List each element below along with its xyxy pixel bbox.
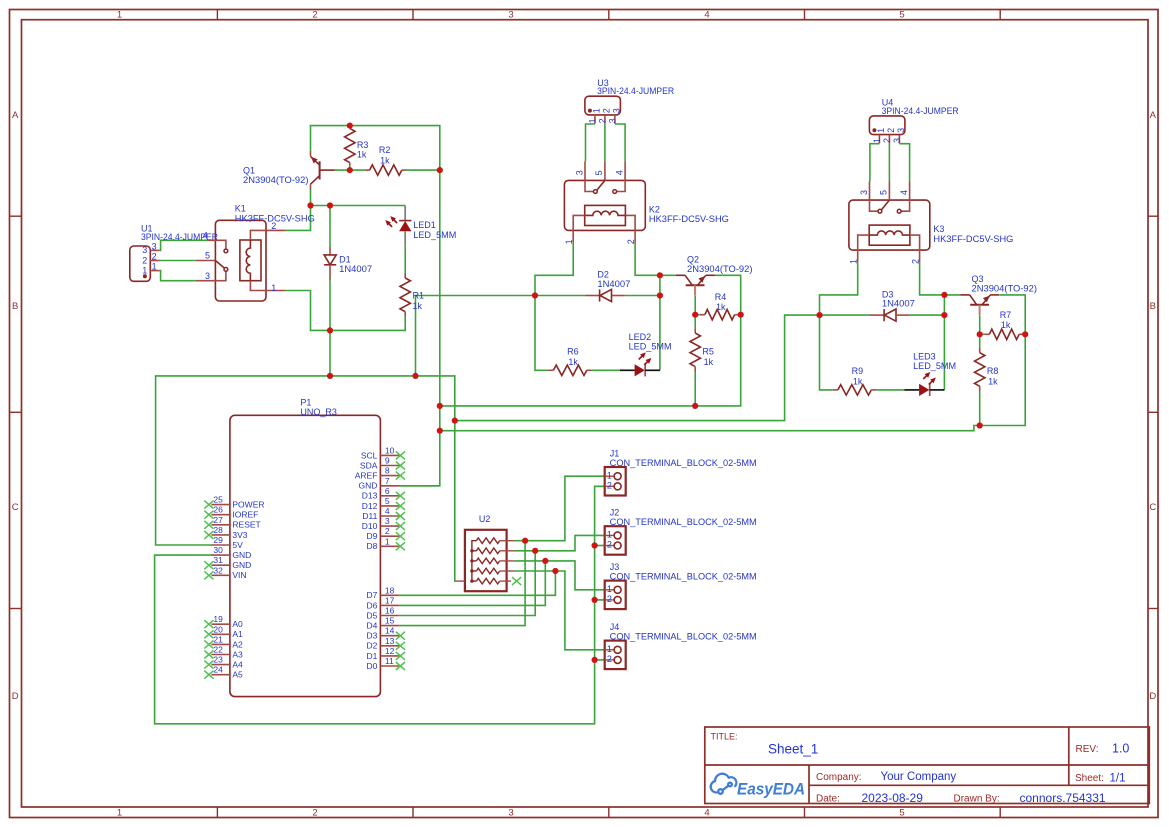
svg-text:B: B	[1150, 301, 1156, 312]
svg-text:2N3904(TO-92): 2N3904(TO-92)	[243, 175, 309, 185]
wire K3 pin1 to D3 anode node	[820, 262, 858, 315]
relay K1 HK3FF-DC5V-SHG	[196, 204, 315, 301]
wire U2 pin1 to J1 pin1	[515, 476, 605, 541]
svg-text:D1: D1	[367, 651, 378, 661]
svg-text:23: 23	[213, 655, 223, 665]
wire J4 pin2 stub	[595, 659, 605, 661]
P1 pin 31 GND	[204, 555, 251, 570]
diode D2 1N4007	[586, 270, 631, 302]
svg-text:4: 4	[385, 506, 390, 516]
svg-text:5: 5	[879, 190, 889, 195]
svg-text:B: B	[12, 301, 18, 312]
P1 pin 22 A3	[204, 645, 243, 660]
svg-text:Sheet:: Sheet:	[1075, 773, 1104, 784]
svg-text:1k: 1k	[357, 150, 367, 160]
svg-text:2N3904(TO-92): 2N3904(TO-92)	[972, 284, 1038, 294]
svg-text:1: 1	[152, 262, 157, 272]
svg-text:26: 26	[213, 505, 223, 515]
wire R5 top stub	[694, 315, 696, 329]
wire U1 pin3 to K1 pin4	[160, 240, 208, 250]
svg-text:Q1: Q1	[243, 165, 255, 175]
P1 pin 25 POWER	[204, 495, 264, 510]
wire D3 cathode to LED3 column	[909, 314, 944, 316]
svg-text:D9: D9	[367, 531, 378, 541]
P1 pin 18 D7	[367, 585, 399, 600]
resistor R5 1k	[690, 328, 714, 371]
svg-text:30: 30	[213, 545, 223, 555]
svg-text:A0: A0	[232, 619, 243, 629]
wire D1 rail to 5V rail	[329, 330, 331, 376]
svg-text:1: 1	[588, 118, 598, 123]
svg-text:3: 3	[574, 170, 584, 175]
IC P1 UNO_R3	[230, 398, 381, 697]
svg-text:R8: R8	[987, 366, 999, 376]
P1 pin 1 D8	[367, 536, 405, 551]
resistor network U2	[456, 514, 521, 591]
svg-text:3: 3	[508, 10, 513, 21]
svg-text:1: 1	[849, 259, 859, 264]
svg-text:25: 25	[213, 495, 223, 505]
junction D1 bottom rail	[327, 327, 333, 333]
svg-text:SCL: SCL	[361, 450, 378, 460]
svg-text:24: 24	[213, 665, 223, 675]
svg-text:UNO_R3: UNO_R3	[300, 407, 337, 417]
svg-text:1: 1	[564, 239, 574, 244]
junction R5 bottom / rail	[692, 403, 698, 409]
wire R4 left stub	[695, 314, 700, 316]
svg-text:1k: 1k	[1001, 320, 1011, 330]
transistor Q1 2N3904(TO-92)	[243, 151, 335, 190]
relay K3 HK3FF-DC5V-SHG	[849, 181, 1014, 264]
svg-text:3: 3	[612, 108, 622, 113]
wire R2 right to GND rail	[406, 169, 440, 171]
P1 pin 20 A1	[204, 624, 243, 639]
svg-text:2: 2	[607, 594, 612, 604]
svg-text:D12: D12	[362, 501, 378, 511]
P1 pin 14 D3	[367, 626, 405, 641]
wire 5V branch to D3 anode	[455, 315, 870, 421]
svg-text:17: 17	[385, 595, 395, 605]
svg-text:5: 5	[594, 170, 604, 175]
jumper U1 3PIN-24.4-JUMPER	[130, 224, 219, 282]
wire K3 pin2 to Q3 base	[920, 262, 961, 295]
svg-text:2: 2	[607, 481, 612, 491]
svg-text:A3: A3	[232, 649, 243, 659]
P1 pin 15 D4	[367, 616, 399, 631]
svg-text:IOREF: IOREF	[232, 510, 258, 520]
connector J1 CON_TERMINAL_BLOCK_02-5MM	[605, 449, 757, 496]
svg-text:D0: D0	[367, 661, 378, 671]
svg-text:1: 1	[117, 808, 122, 819]
connector J2 CON_TERMINAL_BLOCK_02-5MM	[605, 508, 757, 555]
junction GND rail branch y431	[437, 428, 443, 434]
svg-text:10: 10	[385, 445, 395, 455]
P1 pin 7 GND	[359, 476, 399, 491]
svg-text:2: 2	[312, 808, 317, 819]
svg-text:2: 2	[882, 138, 892, 143]
wire R9 to LED3	[876, 389, 904, 391]
wire LED1 to R1	[404, 245, 406, 273]
svg-text:connors.754331: connors.754331	[1020, 791, 1106, 805]
transistor Q2 2N3904(TO-92)	[676, 254, 753, 295]
P1 pin 6 D13	[362, 486, 405, 501]
junction Q1 base / R3 / R2	[347, 167, 353, 173]
svg-text:REV:: REV:	[1076, 744, 1099, 755]
svg-text:Q3: Q3	[972, 274, 984, 284]
svg-text:7: 7	[385, 476, 390, 486]
wire Q1 base to R2 left	[335, 169, 365, 171]
wire J2 pin2 stub	[595, 545, 605, 547]
svg-text:HK3FF-DC5V-SHG: HK3FF-DC5V-SHG	[933, 234, 1013, 244]
wire R7 left stub	[980, 333, 985, 335]
P1 pin 28 3V3	[204, 525, 247, 540]
wire D1 bottom to rail	[329, 280, 331, 330]
junction R3 top / top rail	[347, 123, 353, 129]
wire U3 pin2 to K2 pin5	[604, 124, 606, 162]
svg-text:2: 2	[385, 526, 390, 536]
svg-text:13: 13	[385, 636, 395, 646]
svg-text:2: 2	[911, 259, 921, 264]
svg-text:1.0: 1.0	[1112, 742, 1129, 756]
svg-text:VIN: VIN	[232, 570, 246, 580]
P1 pin 30 GND	[211, 545, 251, 560]
junction K2 pin2 / Q2 base / LED2 column	[657, 272, 663, 278]
junction K2 pin1 / D2 anode / R6	[532, 292, 538, 298]
svg-text:EasyEDA: EasyEDA	[737, 781, 805, 799]
svg-text:31: 31	[213, 555, 223, 565]
svg-text:9: 9	[385, 456, 390, 466]
svg-text:2: 2	[886, 128, 896, 133]
svg-text:19: 19	[213, 614, 223, 624]
wire R4 right stub	[740, 314, 741, 316]
junction Q3 collector / R7 / R8	[977, 331, 983, 337]
transistor Q3 2N3904(TO-92)	[960, 274, 1037, 315]
svg-text:6: 6	[385, 486, 390, 496]
svg-text:C: C	[1149, 502, 1156, 513]
junction U2 pin4 / D7 branch	[552, 568, 558, 574]
junction R8 bottom / rail	[977, 422, 983, 428]
wire 5V net from P1 pin29 up and across to U2 common	[156, 376, 456, 581]
svg-text:1: 1	[271, 283, 276, 293]
resistor R7 1k	[984, 310, 1024, 339]
svg-text:CON_TERMINAL_BLOCK_02-5MM: CON_TERMINAL_BLOCK_02-5MM	[610, 517, 757, 527]
svg-text:POWER: POWER	[232, 500, 264, 510]
svg-text:GND: GND	[359, 481, 378, 491]
junction 5V rail / D2 branch	[412, 373, 418, 379]
svg-text:Sheet_1: Sheet_1	[768, 742, 818, 757]
junction R7 right / emitter rail	[1022, 331, 1028, 337]
wire D2 cathode to LED2 column	[625, 295, 660, 297]
svg-text:C: C	[12, 502, 19, 513]
svg-text:R2: R2	[379, 145, 391, 155]
svg-text:18: 18	[385, 585, 395, 595]
wire LED2 column	[659, 275, 661, 370]
svg-text:D8: D8	[367, 541, 378, 551]
wire Q1 collector down to node	[310, 190, 312, 206]
svg-text:LED_5MM: LED_5MM	[629, 342, 672, 352]
svg-text:4: 4	[704, 808, 709, 819]
wire U2 pin2 to J2 pin1	[515, 535, 605, 550]
svg-text:Q2: Q2	[687, 254, 699, 264]
wire rail to R8 bottom and up to Q3 emitter	[440, 295, 1025, 431]
svg-text:1N4007: 1N4007	[882, 299, 915, 309]
svg-text:CON_TERMINAL_BLOCK_02-5MM: CON_TERMINAL_BLOCK_02-5MM	[610, 458, 757, 468]
diode D1 1N4007	[324, 247, 372, 280]
junction J4 pin2 / GND column	[592, 657, 598, 663]
svg-text:D13: D13	[362, 491, 378, 501]
svg-text:GND: GND	[232, 560, 251, 570]
connector J4 CON_TERMINAL_BLOCK_02-5MM	[605, 622, 757, 669]
junction U2 pin2 / D5 branch	[532, 548, 538, 554]
svg-text:1k: 1k	[853, 377, 863, 387]
svg-text:LED2: LED2	[629, 332, 652, 342]
junction GND rail branch y406	[437, 403, 443, 409]
svg-text:1: 1	[385, 536, 390, 546]
svg-text:32: 32	[213, 565, 223, 575]
svg-text:4: 4	[899, 190, 909, 195]
svg-text:1k: 1k	[704, 357, 714, 367]
svg-text:2: 2	[142, 255, 147, 265]
svg-text:LED1: LED1	[413, 220, 436, 230]
wire Q3 collector node	[979, 316, 981, 335]
P1 pin 23 A4	[204, 655, 243, 670]
svg-text:K3: K3	[933, 224, 944, 234]
svg-text:A2: A2	[232, 639, 243, 649]
svg-text:K2: K2	[649, 204, 660, 214]
P1 pin 2 D9	[367, 526, 405, 541]
svg-text:D11: D11	[362, 511, 377, 521]
P1 pin 3 D10	[362, 516, 405, 531]
junction R4 right / emitter rail	[738, 312, 744, 318]
svg-text:R7: R7	[1000, 310, 1012, 320]
svg-text:28: 28	[213, 525, 223, 535]
svg-text:1k: 1k	[568, 357, 578, 367]
P1 pin 26 IOREF	[204, 505, 258, 520]
P1 pin 4 D11	[362, 506, 405, 521]
svg-text:4: 4	[704, 10, 709, 21]
svg-text:A4: A4	[232, 660, 243, 670]
svg-text:2: 2	[626, 239, 636, 244]
wire U2 pin4 to J4 pin1	[515, 571, 605, 650]
svg-text:K1: K1	[235, 204, 246, 214]
resistor R2 1k	[365, 145, 406, 175]
svg-text:3PIN-24.4-JUMPER: 3PIN-24.4-JUMPER	[597, 86, 674, 96]
resistor R3 1k	[345, 126, 369, 166]
svg-text:29: 29	[213, 535, 223, 545]
svg-text:1: 1	[607, 644, 612, 654]
junction R2 right / GND rail	[437, 167, 443, 173]
P1 pin 8 AREF	[355, 466, 405, 481]
wire K2 pin2 to Q2 base	[635, 243, 676, 276]
svg-text:3: 3	[152, 241, 157, 251]
svg-text:D7: D7	[367, 590, 378, 600]
svg-text:LED_5MM: LED_5MM	[913, 361, 956, 371]
svg-text:5: 5	[899, 10, 904, 21]
junction J2 pin2 / GND column	[592, 542, 598, 548]
junction J3 pin2 / GND column	[592, 597, 598, 603]
svg-text:1: 1	[876, 128, 886, 133]
P1 pin 21 A2	[204, 634, 243, 649]
connector J3 CON_TERMINAL_BLOCK_02-5MM	[605, 562, 757, 609]
svg-text:A1: A1	[232, 629, 243, 639]
P1 pin 9 SDA	[360, 456, 405, 471]
svg-text:8: 8	[385, 466, 390, 476]
diode D3 1N4007	[870, 289, 915, 321]
svg-text:2: 2	[152, 251, 157, 261]
svg-text:AREF: AREF	[355, 471, 378, 481]
P1 pin 24 A5	[204, 665, 243, 680]
svg-text:D6: D6	[367, 600, 378, 610]
svg-text:3V3: 3V3	[232, 530, 247, 540]
junction 5V rail / K3 branch	[452, 418, 458, 424]
svg-text:R6: R6	[567, 347, 579, 357]
svg-text:LED3: LED3	[913, 352, 936, 362]
svg-text:4: 4	[614, 170, 624, 175]
svg-text:1k: 1k	[988, 377, 998, 387]
resistor R9 1k	[833, 366, 876, 395]
svg-text:3: 3	[385, 516, 390, 526]
LED LED2 LED_5MM	[620, 332, 672, 377]
svg-text:2: 2	[602, 108, 612, 113]
wire R9 branch down	[820, 315, 833, 390]
svg-text:5: 5	[385, 496, 390, 506]
resistor R6 1k	[548, 347, 591, 376]
svg-text:1k: 1k	[716, 302, 726, 312]
P1 pin 17 D6	[367, 595, 399, 610]
P1 pin 32 VIN	[204, 565, 246, 580]
svg-text:3PIN-24.4-JUMPER: 3PIN-24.4-JUMPER	[882, 106, 959, 116]
svg-text:A: A	[1150, 110, 1157, 121]
svg-text:R4: R4	[715, 292, 727, 302]
svg-text:TITLE:: TITLE:	[711, 732, 738, 742]
svg-text:R1: R1	[413, 291, 425, 301]
relay K2 HK3FF-DC5V-SHG	[564, 161, 729, 244]
svg-text:D4: D4	[367, 621, 378, 631]
svg-text:1: 1	[872, 138, 882, 143]
svg-text:R5: R5	[702, 347, 714, 357]
svg-text:21: 21	[213, 634, 223, 644]
svg-text:2: 2	[271, 221, 276, 231]
junction U2 pin1 / D4 branch	[522, 538, 528, 544]
svg-text:CON_TERMINAL_BLOCK_02-5MM: CON_TERMINAL_BLOCK_02-5MM	[610, 631, 757, 641]
wire U2 pin1 to P1 D4	[399, 541, 525, 626]
svg-text:2N3904(TO-92): 2N3904(TO-92)	[687, 264, 753, 274]
wire U2 pin3 to P1 D6	[399, 561, 545, 606]
P1 pin 5 D12	[362, 496, 405, 511]
svg-text:16: 16	[385, 606, 395, 616]
svg-text:1/1: 1/1	[1110, 773, 1126, 785]
svg-text:Company:: Company:	[816, 772, 862, 783]
svg-text:1N4007: 1N4007	[339, 264, 372, 274]
resistor R4 1k	[700, 292, 740, 320]
junction D2 cathode / LED2 column	[657, 292, 663, 298]
wire GND net from P1 pin30 down bottom rail up to J pin2 column	[155, 486, 605, 724]
P1 pin 11 D0	[367, 656, 405, 671]
svg-text:3: 3	[892, 138, 902, 143]
svg-text:R3: R3	[357, 140, 369, 150]
svg-text:3: 3	[508, 808, 513, 819]
wire R7 right stub	[1024, 333, 1025, 335]
wire U1 pin1 to K1 pin3	[160, 271, 196, 281]
junction D3 cathode / LED3 column	[941, 312, 947, 318]
svg-text:2: 2	[607, 540, 612, 550]
wire U4 pin1 to K3 pin3	[870, 144, 880, 181]
svg-text:HK3FF-DC5V-SHG: HK3FF-DC5V-SHG	[649, 214, 729, 224]
svg-text:22: 22	[213, 645, 223, 655]
wire LED3 column	[943, 295, 945, 390]
svg-text:CON_TERMINAL_BLOCK_02-5MM: CON_TERMINAL_BLOCK_02-5MM	[610, 571, 757, 581]
svg-text:5: 5	[899, 808, 904, 819]
svg-text:3: 3	[205, 271, 210, 281]
wire K1 pin1 to bottom rail and R1 bottom	[285, 291, 405, 331]
P1 pin 13 D2	[367, 636, 405, 651]
P1 pin 29 5V	[211, 535, 243, 550]
svg-text:2: 2	[607, 654, 612, 664]
svg-text:R9: R9	[852, 366, 864, 376]
jumper U3 3PIN-24.4-JUMPER	[585, 78, 675, 124]
svg-text:3: 3	[142, 245, 147, 255]
svg-text:5V: 5V	[232, 540, 243, 550]
wire R6 branch down	[535, 296, 548, 371]
svg-text:1k: 1k	[380, 156, 390, 166]
wire K1 pin2 to collector node	[285, 206, 311, 231]
P1 pin 16 D5	[367, 606, 399, 621]
wire net GND7 top rail (Q1 emitter, R3 top, R2 right, down to P1 GND pin 7)	[311, 126, 440, 486]
junction K3 pin2 / Q3 base / LED3 column	[941, 292, 947, 298]
wire U2 pin4 to P1 D7	[399, 571, 556, 595]
wire R3 bottom stub	[349, 166, 351, 171]
wire K2 pin1 to D2 anode node	[535, 243, 573, 296]
svg-text:1: 1	[142, 265, 147, 275]
svg-text:D2: D2	[367, 641, 378, 651]
wire U4 pin2 to K3 pin5	[888, 143, 890, 181]
wire R5 bottom	[694, 372, 696, 406]
LED LED1 LED_5MM	[385, 206, 456, 246]
svg-text:2: 2	[312, 10, 317, 21]
svg-text:D: D	[12, 691, 19, 702]
svg-text:D: D	[1149, 691, 1156, 702]
svg-text:GND: GND	[232, 550, 251, 560]
svg-text:20: 20	[213, 624, 223, 634]
svg-text:5: 5	[205, 251, 210, 261]
svg-text:15: 15	[385, 616, 395, 626]
wire J3 pin2 stub	[595, 599, 605, 601]
svg-text:1: 1	[592, 108, 602, 113]
junction Q2 collector / R4 / R5	[692, 312, 698, 318]
svg-text:3: 3	[859, 190, 869, 195]
wire 5V branch to D2 anode	[416, 296, 586, 376]
svg-text:11: 11	[385, 656, 394, 666]
svg-text:3: 3	[896, 128, 906, 133]
svg-text:SDA: SDA	[360, 460, 378, 470]
wire R8 top stub	[979, 334, 981, 348]
svg-text:D5: D5	[367, 610, 378, 620]
svg-text:4: 4	[203, 231, 208, 241]
wire GND rail to R5 bottom and up to Q2 emitter	[440, 275, 741, 406]
svg-text:D10: D10	[362, 521, 378, 531]
wire U2 pin2 to P1 D5	[399, 551, 535, 616]
wire U3 pin1 to K2 pin3	[586, 124, 595, 161]
junction U2 pin3 / D6 branch	[542, 558, 548, 564]
svg-text:1: 1	[607, 530, 612, 540]
junction K3 pin1 / D3 anode / R9	[816, 312, 822, 318]
svg-text:1k: 1k	[413, 301, 423, 311]
wire R8 bottom	[979, 391, 981, 425]
wire D1 top	[329, 206, 331, 248]
svg-text:14: 14	[385, 626, 395, 636]
P1 pin 12 D1	[367, 646, 405, 661]
svg-text:D3: D3	[367, 631, 378, 641]
